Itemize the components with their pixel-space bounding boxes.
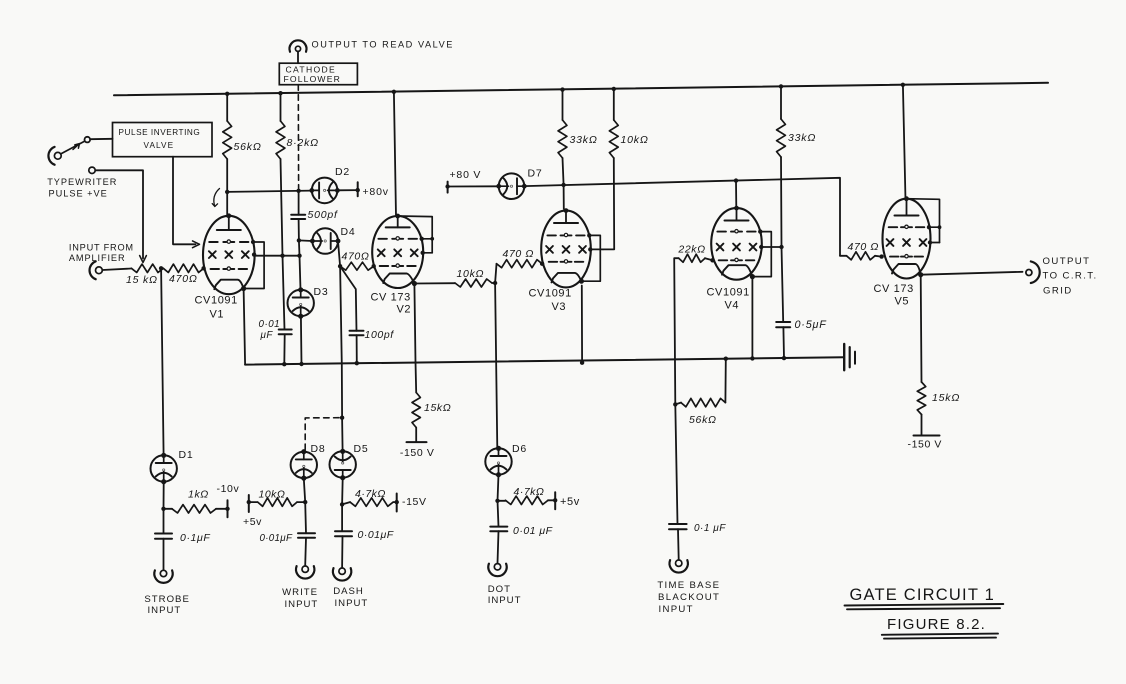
wire 22k to V4 grid <box>705 258 713 260</box>
wire 56k to V1 anode node <box>226 159 228 192</box>
valve V5 grid3 (dashed row) <box>889 226 898 228</box>
node 10k/470/dot junction <box>492 282 495 284</box>
valve V1 cathode <box>214 280 243 290</box>
valve V1 anode <box>228 216 230 230</box>
svg-text:TYPEWRITER: TYPEWRITER <box>47 177 117 187</box>
resistor 15k ohm (V2 cathode) <box>412 393 420 428</box>
wire D3 to ground bus <box>300 316 303 364</box>
node D1/1k <box>161 507 165 511</box>
wire junction down to 0.1uF <box>675 404 677 524</box>
resistor 56k ohm (time base) <box>681 398 725 406</box>
dashed wire cathode follower to D2 node <box>297 85 299 189</box>
svg-text:0·01μF: 0·01μF <box>358 529 394 541</box>
svg-text:500pf: 500pf <box>308 209 339 221</box>
node 0.01uF/ground bus <box>282 362 286 366</box>
wire 33k right down to V4 screen node <box>780 157 783 247</box>
svg-text:PULSE +VE: PULSE +VE <box>49 189 108 199</box>
node bus/8.2k <box>278 91 282 95</box>
wire 0.5uF to ground bus <box>782 327 785 358</box>
svg-text:CV 173: CV 173 <box>874 283 914 295</box>
resistor 8.2k ohm <box>276 121 285 159</box>
svg-text:0·1μF: 0·1μF <box>180 532 210 544</box>
capacitor 0.01uF (dash) <box>335 530 352 532</box>
wire 4.7k to +5v bar (dot) <box>548 499 555 501</box>
diode D8 <box>291 452 317 478</box>
resistor 56k ohm (V1 anode load) <box>223 121 232 159</box>
wire dash-line down from 470 node <box>340 266 342 418</box>
terminal +80V (bar) <box>357 182 359 196</box>
ground (earth) symbol <box>843 344 845 370</box>
svg-text:D3: D3 <box>314 286 329 298</box>
node bus/56k <box>225 92 229 96</box>
diode D6 <box>485 448 511 474</box>
node V5 grid <box>879 254 883 258</box>
title underline <box>845 604 1004 606</box>
svg-text:D8: D8 <box>311 443 326 455</box>
svg-text:-15V: -15V <box>402 496 427 508</box>
wire 1k to -10V bar <box>216 508 228 510</box>
wire bus to 10k <box>613 89 615 120</box>
diode D4 <box>312 228 338 254</box>
svg-text:STROBE: STROBE <box>144 594 189 605</box>
ground bus (mid) <box>245 357 844 364</box>
wire 10k to +5v bar <box>249 501 258 503</box>
wire 15k to -150V bar (V5) <box>921 415 923 436</box>
svg-text:8·2kΩ: 8·2kΩ <box>287 137 319 149</box>
svg-text:INPUT: INPUT <box>148 605 182 616</box>
diode D1 <box>151 455 177 481</box>
valve V5 envelope <box>883 199 931 279</box>
svg-text:V1: V1 <box>210 309 225 321</box>
svg-text:56kΩ: 56kΩ <box>689 414 717 426</box>
svg-text:D4: D4 <box>341 226 356 238</box>
node V3 cathode/ground bus <box>580 361 584 365</box>
resistor 10k ohm (write) <box>258 498 297 506</box>
node V3 grid <box>540 262 544 266</box>
resistor 15k ohm (V5 cathode) <box>917 382 925 415</box>
node +80 line / V4 anode <box>734 178 738 182</box>
wire V1 anode node to tube <box>226 192 228 217</box>
svg-text:GRID: GRID <box>1043 286 1073 297</box>
wire bus to 33k right <box>780 86 782 119</box>
svg-text:WRITE: WRITE <box>282 587 318 598</box>
svg-text:470Ω: 470Ω <box>169 273 198 285</box>
svg-text:CATHODE: CATHODE <box>286 65 336 75</box>
svg-text:33kΩ: 33kΩ <box>570 134 598 146</box>
resistor 470 ohm to V1 grid <box>163 264 203 272</box>
node bus/V5 anode <box>901 83 905 87</box>
resistor 470 ohm to V2 grid <box>340 262 374 270</box>
svg-text:4·7kΩ: 4·7kΩ <box>514 486 545 498</box>
svg-text:BLACKOUT: BLACKOUT <box>658 592 720 603</box>
valve V3 suppressor-to-cathode strap <box>581 235 600 281</box>
svg-text:D6: D6 <box>512 443 527 455</box>
svg-text:+80v: +80v <box>363 186 389 198</box>
terminal: input from amplifier <box>96 267 103 274</box>
diode D7 <box>499 173 525 199</box>
wire 0.01uF to dash terminal <box>341 536 343 567</box>
wire 100pf branch <box>340 266 356 331</box>
resistor 22k ohm (V4 grid) <box>679 254 705 262</box>
capacitor 0.01uF (dot) <box>490 526 507 528</box>
svg-text:INPUT FROM: INPUT FROM <box>69 243 134 253</box>
terminal: typewriter pulse input <box>89 167 95 173</box>
wire V1 cathode to ground bus <box>244 289 246 365</box>
wire node to 0.01uF dot <box>498 501 499 527</box>
resistor 10k ohm (V3 screen feed) <box>609 120 618 158</box>
node time-base/56k junction <box>673 402 677 406</box>
wire 33k to +80 line <box>563 158 564 185</box>
wire input terminal to 15k <box>103 269 132 271</box>
resistor 4.7k ohm (dot) <box>506 496 549 504</box>
switch arm with arrow <box>62 141 85 153</box>
capacitor 100pf <box>350 330 364 332</box>
capacitor 0.01uF (write) <box>298 532 315 534</box>
svg-text:CV1091: CV1091 <box>195 295 238 307</box>
resistor 33k ohm (right) <box>777 119 786 157</box>
svg-text:INPUT: INPUT <box>335 598 369 609</box>
wire V3 cathode to ground bus <box>581 286 583 363</box>
wire 0.1uF to time base terminal <box>677 529 680 559</box>
valve V3 cathode <box>552 273 582 283</box>
svg-text:TIME BASE: TIME BASE <box>657 580 720 591</box>
svg-text:V5: V5 <box>895 296 910 308</box>
wire 4.7k to -15V bar <box>393 501 397 503</box>
wire V2 cathode down to 15k <box>414 284 416 393</box>
wire V4 cathode to ground bus <box>751 277 753 359</box>
pulse inverting valve box <box>113 123 213 157</box>
valve V4 control grid (dashed row) <box>719 259 728 261</box>
dashed wire D8 to dash line <box>305 418 342 450</box>
wire V3 screen row to strap <box>590 248 603 250</box>
svg-text:22kΩ: 22kΩ <box>677 244 705 256</box>
node bus/33k (V3) <box>560 87 564 91</box>
valve V2 cathode <box>383 274 414 284</box>
svg-text:-150 V: -150 V <box>908 439 943 451</box>
wire node down to 0.5uF <box>782 247 784 322</box>
svg-text:10kΩ: 10kΩ <box>457 268 485 280</box>
valve V3 control grid (dashed row) <box>549 261 558 263</box>
wire 56k up to ground bus <box>724 359 726 403</box>
node 56k/ground bus <box>724 357 728 361</box>
wire V5 cathode down to 15k <box>920 275 923 382</box>
cathode follower box <box>279 63 357 84</box>
svg-text:V2: V2 <box>397 304 412 316</box>
svg-text:OUTPUT: OUTPUT <box>1043 256 1091 267</box>
svg-text:0·01 μF: 0·01 μF <box>513 525 553 537</box>
wire node to 0.1uF <box>163 509 165 534</box>
valve V5 anode-grid strap <box>907 199 940 243</box>
wire 0.01uF to ground bus <box>283 334 285 364</box>
valve V1 suppressor-to-cathode strap <box>244 242 265 289</box>
top HT supply bus <box>114 83 1048 96</box>
capacitor 0.5uF <box>776 321 790 323</box>
valve V4 anode <box>736 208 738 220</box>
wire 10k down to V3 screen strap <box>603 158 614 249</box>
node V4 cathode/ground bus <box>750 356 754 360</box>
valve V3 envelope <box>541 211 591 288</box>
node V1 screen to D3 line <box>297 254 301 258</box>
svg-text:15 kΩ: 15 kΩ <box>126 274 158 286</box>
svg-text:GATE CIRCUIT 1: GATE CIRCUIT 1 <box>850 586 995 604</box>
valve V2 anode-grid strap <box>398 216 433 253</box>
wire 8.2k to V1 screen node <box>281 159 283 256</box>
node D6/4.7k <box>495 499 499 503</box>
wire bus to 8.2k <box>280 93 282 121</box>
node dashed line joins D2 wire <box>296 189 300 193</box>
terminal strobe input <box>160 570 166 576</box>
svg-text:PULSE INVERTING: PULSE INVERTING <box>119 128 201 137</box>
valve V4 suppressor-to-cathode strap <box>752 232 771 277</box>
wire D2 node to 500pf <box>298 191 300 215</box>
terminal write input <box>302 566 308 572</box>
wire D4 left lead <box>299 239 313 242</box>
valve V4 grid3 (dashed row) <box>717 231 726 233</box>
svg-text:-10v: -10v <box>217 483 240 495</box>
diode D3 <box>288 290 314 316</box>
valve V4 envelope <box>711 208 762 280</box>
terminal dot input <box>494 564 500 570</box>
wire 470 to V5 grid <box>875 255 882 258</box>
valve V1 grid3 (dashed row) <box>209 241 218 243</box>
node V4 grid <box>710 258 714 262</box>
valve V5 control grid (dashed row) <box>890 256 899 258</box>
valve V5 cathode <box>892 264 921 275</box>
svg-text:470 Ω: 470 Ω <box>848 241 879 253</box>
wire 15k to -150V bar <box>415 428 417 443</box>
node D4 right <box>336 239 340 243</box>
svg-text:CV1091: CV1091 <box>529 288 572 300</box>
svg-text:CV1091: CV1091 <box>707 287 750 299</box>
svg-text:-150 V: -150 V <box>400 447 435 459</box>
wire D4 to 470/V2-grid node <box>338 241 340 266</box>
node V1 screen/8.2k <box>280 254 284 258</box>
svg-text:V4: V4 <box>725 300 740 312</box>
svg-text:10kΩ: 10kΩ <box>621 134 649 146</box>
valve V1 envelope <box>203 216 255 294</box>
svg-text:INPUT: INPUT <box>488 595 522 606</box>
wire V1 screen node down to 0.01uF <box>283 256 285 330</box>
wire typewriter terminal down to 15k input node (arrow) <box>95 170 143 258</box>
wire 500pf to D4 node <box>298 219 300 240</box>
svg-text:4·7kΩ: 4·7kΩ <box>355 488 386 500</box>
valve V1 control grid (dashed row) <box>211 268 220 270</box>
hand-drawn arrow mark above V1 <box>212 189 219 207</box>
wire +80 bend to 470 (V5) <box>840 255 847 257</box>
wire 0.01uF to write terminal <box>304 538 307 566</box>
svg-text:470Ω: 470Ω <box>342 251 370 263</box>
wire switch to pulse inverting valve box <box>90 138 112 140</box>
svg-text:OUTPUT TO READ VALVE: OUTPUT TO READ VALVE <box>312 40 454 50</box>
node D3/ground bus <box>299 362 303 366</box>
svg-text:CV 173: CV 173 <box>371 292 411 304</box>
wire +80 line to V4 anode <box>735 181 737 209</box>
terminal -15V (bar) <box>396 494 398 512</box>
node: strobe junction at 15k/470 <box>159 266 163 270</box>
wire D8 to 10k node <box>304 479 305 503</box>
diode D2 <box>312 178 338 204</box>
resistor 470 ohm to V3 grid <box>497 260 543 268</box>
svg-text:15kΩ: 15kΩ <box>932 392 960 404</box>
valve V3 anode <box>565 211 567 223</box>
svg-text:INPUT: INPUT <box>285 599 319 610</box>
node D8/10k <box>303 500 307 504</box>
node V2 grid <box>372 264 376 268</box>
resistor 15k ohm (grid stopper) <box>131 264 163 272</box>
node 100pf/ground bus <box>355 361 359 365</box>
wire V1 anode node to D2 <box>227 191 312 192</box>
node bus/V2 anode <box>392 90 396 94</box>
terminal +5v write (bar) <box>248 495 250 512</box>
svg-text:FIGURE 8.2.: FIGURE 8.2. <box>887 616 986 633</box>
wire D7 east along +80 line to V5 grid bend <box>524 178 840 256</box>
valve V2 anode <box>397 216 399 227</box>
wire V1 screen row to 8.2k and D3 lines <box>255 255 300 257</box>
svg-text:0·1 μF: 0·1 μF <box>694 523 726 534</box>
svg-text:INPUT: INPUT <box>659 604 694 615</box>
node D4 branch <box>297 238 301 242</box>
wire terminal to cathode follower box <box>297 52 299 64</box>
svg-text:VALVE: VALVE <box>144 141 175 150</box>
valve V2 control grid (dashed row) <box>380 265 389 267</box>
wire bus to 33k <box>562 90 564 120</box>
terminal output to CRT grid <box>1026 270 1032 276</box>
svg-text:D1: D1 <box>179 449 194 461</box>
node V1 grid <box>201 266 205 270</box>
terminal +80V (bar, D7) <box>447 182 449 193</box>
node 33k/+80 line <box>561 183 565 187</box>
node V1 anode / D2 branch <box>225 190 229 194</box>
wire dash node to D5 <box>341 418 344 451</box>
wire node to 0.01uF write <box>304 502 307 533</box>
valve V4 cathode <box>722 265 752 276</box>
wire V5 cathode to CRT output <box>921 272 1023 275</box>
svg-text:μF: μF <box>260 330 274 341</box>
wire node to 0.01uF dash <box>341 504 343 531</box>
node bus/33k (right) <box>779 84 783 88</box>
svg-text:0·5μF: 0·5μF <box>795 319 828 331</box>
svg-text:D5: D5 <box>354 443 369 455</box>
node bus/10k <box>612 87 616 91</box>
svg-text:AMPLIFIER: AMPLIFIER <box>69 253 126 263</box>
terminal time base blackout input <box>676 560 682 566</box>
terminal -150V (V5, bar) <box>914 435 940 437</box>
figure underline <box>882 634 998 635</box>
wire V4 screen row to 33k line <box>760 246 781 248</box>
svg-text:56kΩ: 56kΩ <box>234 141 262 153</box>
resistor 470 ohm (V5 grid) <box>847 252 876 260</box>
wire D1 to -10V node <box>163 482 165 509</box>
svg-text:10kΩ: 10kΩ <box>259 489 286 501</box>
svg-text:33kΩ: 33kΩ <box>788 132 816 144</box>
wire strobe node down to D1 <box>161 268 164 455</box>
svg-text:TO C.R.T.: TO C.R.T. <box>1043 271 1098 282</box>
valve V2 screen grid (x row) <box>378 249 385 256</box>
wire junction down to D6 <box>495 283 497 449</box>
wire D2 to +80V terminal <box>337 189 357 191</box>
svg-text:0·01: 0·01 <box>259 319 281 330</box>
svg-text:D2: D2 <box>335 166 350 178</box>
wire D4 node to V1 screen row node <box>298 240 301 255</box>
wire V2 cathode to 10k coupling <box>414 282 455 284</box>
wire +80V bar to D7 <box>448 185 499 187</box>
svg-text:+5v: +5v <box>243 516 262 528</box>
capacitor 0.01uF (V1 screen decoupling) <box>279 329 292 331</box>
wire 100pf to ground bus <box>356 335 358 363</box>
valve V2 grid3 (dashed row) <box>378 238 387 240</box>
resistor 4.7k ohm (dash) <box>350 498 393 506</box>
svg-text:100pf: 100pf <box>365 329 395 341</box>
wire D5 to 4.7k node <box>341 478 344 504</box>
valve V2 envelope <box>372 216 423 288</box>
terminal: output to read valve <box>295 46 300 51</box>
capacitor 0.1uF (time base) <box>669 523 687 525</box>
wire down to D3 <box>300 256 301 290</box>
node 0.5uF/ground bus <box>782 356 786 360</box>
wire junction up to 470 <box>495 264 496 283</box>
valve V5 anode <box>906 199 908 216</box>
svg-text:0·01μF: 0·01μF <box>260 533 293 544</box>
resistor 10k ohm (V2-V3 coupling) <box>455 279 492 287</box>
node V4 screen/33k <box>779 245 783 249</box>
resistor 1k ohm <box>172 505 216 513</box>
diode D5 <box>330 451 356 477</box>
wire D6 to 4.7k node <box>498 475 499 501</box>
svg-text:V3: V3 <box>552 301 567 313</box>
svg-text:+5v: +5v <box>560 496 580 508</box>
wire pulse inverting valve to V1 grid (arrow) <box>173 157 196 245</box>
switch contact circle <box>85 137 91 143</box>
valve V5 screen grid (x row) <box>887 239 894 246</box>
svg-text:15kΩ: 15kΩ <box>424 402 451 414</box>
capacitor 500pf <box>291 214 305 216</box>
terminal -150V (V2, bar) <box>407 441 427 443</box>
terminal +5v dot (bar) <box>554 492 556 509</box>
svg-text:+80 V: +80 V <box>450 169 482 181</box>
wire 0.01uF to dot terminal <box>498 531 499 563</box>
terminal dash input <box>339 568 345 574</box>
valve V1 screen grid (x row) <box>209 251 216 258</box>
valve V4 screen grid (x row) <box>717 244 724 251</box>
terminal -10V (bar) <box>227 500 229 517</box>
node D5/4.7k <box>340 502 344 506</box>
resistor 33k ohm (V3 anode load) <box>558 120 567 158</box>
wire 22k left down to time-base line <box>674 258 679 404</box>
svg-text:470 Ω: 470 Ω <box>503 248 534 260</box>
svg-text:1kΩ: 1kΩ <box>188 489 209 501</box>
valve V3 screen grid (x row) <box>546 246 553 253</box>
svg-text:D7: D7 <box>528 168 543 180</box>
wire bus to V5 anode <box>903 85 906 200</box>
node 470/D4/V2-grid junction <box>338 264 342 268</box>
svg-text:DASH: DASH <box>333 586 364 597</box>
wire bus to V2 anode <box>394 92 396 216</box>
node dashed write link <box>340 416 344 420</box>
terminal: typewriter pulse (switch pole) <box>54 152 61 159</box>
wire +80 node to V3 anode <box>563 185 565 209</box>
wire bus to 56k <box>226 94 228 121</box>
svg-text:FOLLOWER: FOLLOWER <box>284 74 341 84</box>
wire 0.1uF to strobe terminal <box>163 539 165 570</box>
capacitor 0.1uF (strobe) <box>155 533 172 535</box>
svg-text:DOT: DOT <box>488 584 511 595</box>
valve V3 grid3 (dashed row) <box>547 234 556 236</box>
